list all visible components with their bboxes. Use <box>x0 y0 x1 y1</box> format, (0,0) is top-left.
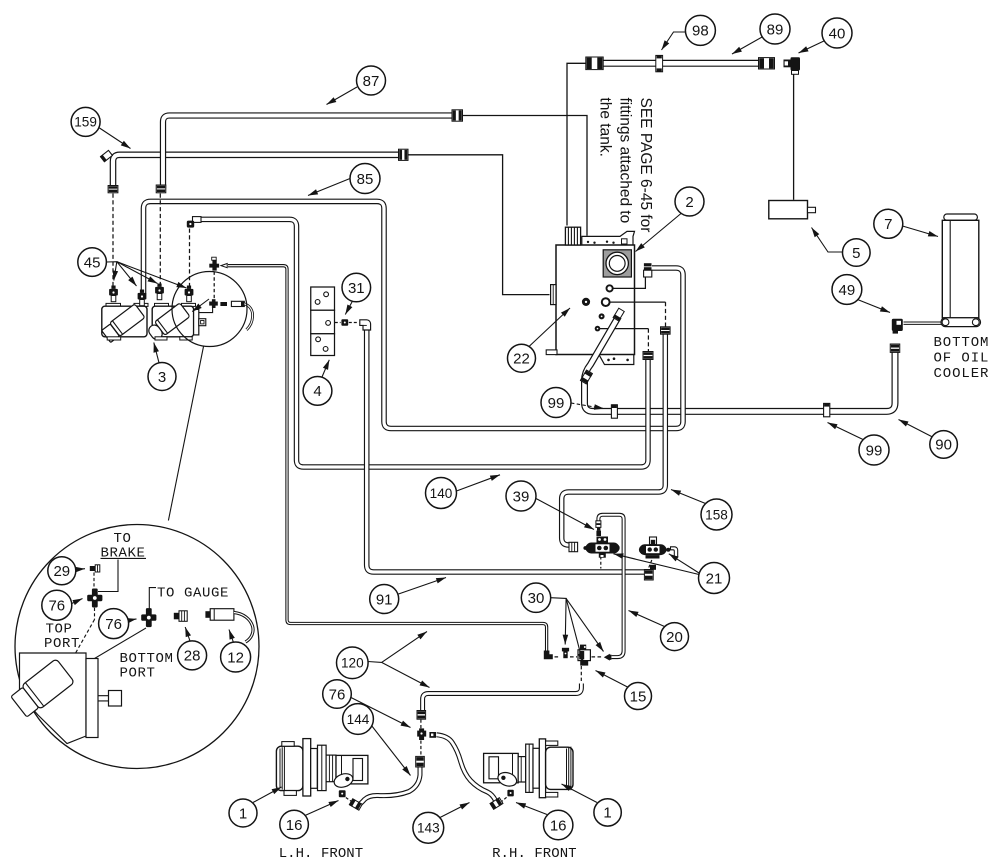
tee fitting 76/29 main view <box>209 257 219 270</box>
svg-text:20: 20 <box>666 629 683 646</box>
svg-text:85: 85 <box>357 171 374 188</box>
svg-text:76: 76 <box>105 616 122 633</box>
svg-text:99: 99 <box>866 442 883 459</box>
svg-text:4: 4 <box>313 383 321 400</box>
svg-text:16: 16 <box>550 817 567 834</box>
svg-text:PORT: PORT <box>44 636 80 652</box>
hose 143 right end fitting <box>490 797 504 809</box>
dash valve 15 to hose 120 <box>580 666 582 683</box>
dash hose 87 to fitting 45-3 <box>159 194 161 286</box>
svg-text:1: 1 <box>239 805 247 822</box>
leader 39 <box>536 499 594 530</box>
svg-text:140: 140 <box>430 486 453 501</box>
hose 89 <box>603 60 759 67</box>
suction hose tank-end coupler <box>613 308 625 321</box>
TO GAUGE label <box>157 586 229 602</box>
fitting 28 <box>174 611 187 622</box>
leader 3 <box>154 343 159 363</box>
svg-text:40: 40 <box>829 25 846 42</box>
coupler hose 120 end <box>417 711 426 720</box>
tank breather <box>565 227 580 245</box>
valve 15 <box>578 645 590 666</box>
callout 1 RH <box>594 799 621 826</box>
leader 158 <box>671 490 706 504</box>
hose 20 end fitting <box>604 654 612 661</box>
svg-text:15: 15 <box>630 688 647 705</box>
line hose 87 to tank bracket <box>463 116 588 236</box>
leader 90 <box>899 420 933 438</box>
svg-text:BOTTOM: BOTTOM <box>934 335 990 351</box>
coupler hose 140 top <box>643 352 653 360</box>
fitting 45 #4 <box>185 286 194 302</box>
leader 49 <box>858 300 891 313</box>
callout 76 bottom <box>99 609 129 639</box>
tank port P3 <box>599 313 605 319</box>
callout 76 tee <box>323 680 352 709</box>
suction hose tank to oil cooler (99/90) <box>585 317 896 412</box>
dash port P4 to hose 140 <box>647 329 649 351</box>
hose 87 <box>163 116 452 189</box>
leader 89 <box>732 37 763 55</box>
svg-text:12: 12 <box>227 649 244 666</box>
fitting above hose 91 end <box>650 565 656 570</box>
leader 4 <box>322 360 329 377</box>
hose 158 <box>562 335 666 546</box>
callout 85 <box>350 164 380 194</box>
svg-text:fittings attached to: fittings attached to <box>617 98 634 224</box>
callout 5 <box>843 239 871 267</box>
callout 1 LH <box>229 799 257 827</box>
tank port 22 <box>582 298 590 306</box>
svg-text:TO GAUGE: TO GAUGE <box>157 586 229 602</box>
svg-text:OF OIL: OF OIL <box>934 351 990 367</box>
callout 159 <box>71 107 100 136</box>
callout 7 <box>874 209 903 238</box>
svg-text:159: 159 <box>74 115 97 130</box>
open arrow at tee <box>221 264 227 268</box>
callout 39 <box>506 481 536 511</box>
brake line end elbow <box>544 651 553 660</box>
brake chamber 1 RH <box>484 739 573 798</box>
leader 29 <box>76 568 85 571</box>
leader 120 a <box>368 632 427 663</box>
callout 20 <box>661 623 689 651</box>
bracket TO BRAKE <box>98 560 118 592</box>
callout 99 right <box>859 435 889 465</box>
callout 158 <box>701 499 732 530</box>
callout 89 <box>760 14 790 44</box>
dash tee 144 to hose 143 <box>420 741 422 756</box>
coupler hose 143 top <box>416 756 425 767</box>
hose 143 left end fitting <box>349 798 363 810</box>
svg-text:30: 30 <box>528 590 545 607</box>
dash tee 76 to lower tee <box>213 272 215 299</box>
R.H. FRONT label <box>492 846 577 862</box>
hose 159 <box>113 155 399 189</box>
leader 12 <box>229 630 234 643</box>
coupler on hose 90 <box>890 344 900 352</box>
callout 91 <box>370 585 399 614</box>
leader 76 tee <box>351 698 411 728</box>
L-line valve to lower tee <box>199 307 213 313</box>
leader 40 <box>799 40 827 53</box>
leader 1 RH <box>562 784 598 803</box>
magnified detail circle <box>15 525 259 769</box>
svg-text:16: 16 <box>286 817 303 834</box>
svg-text:22: 22 <box>513 351 530 368</box>
port P4 line <box>600 328 648 330</box>
svg-text:89: 89 <box>767 21 784 38</box>
fitting 16 RH <box>507 790 513 797</box>
svg-text:28: 28 <box>184 648 201 665</box>
dash fitting 16 LH <box>346 798 352 802</box>
valve 3 left plunger <box>101 304 145 343</box>
callout 49 <box>832 275 862 305</box>
valve 3 right plunger <box>146 303 190 342</box>
hose 158 elbow into manifold <box>569 542 578 551</box>
callout 21 <box>699 563 730 594</box>
manifold 21 right <box>639 537 670 559</box>
svg-text:144: 144 <box>347 712 370 727</box>
leader 144 <box>372 726 411 776</box>
leader 1 LH <box>253 787 282 803</box>
svg-text:29: 29 <box>53 563 70 580</box>
BOTTOM OF OIL COOLER label <box>934 335 990 382</box>
elbow at tank to hose 85 <box>644 263 652 277</box>
fitting 45 #1 <box>109 286 118 302</box>
fitting 16 LH <box>339 790 346 797</box>
magnified valve body <box>10 653 122 744</box>
dash hose 120 to tee 144 <box>420 720 422 729</box>
leader 45 a <box>107 262 117 281</box>
leader 45 d <box>117 262 187 288</box>
L.H. FRONT label <box>279 846 364 862</box>
valve 3 side plate <box>194 309 206 335</box>
tank left tab <box>551 285 556 305</box>
leader 99 left <box>571 403 604 409</box>
callout 15 <box>625 683 652 710</box>
leader 45 c <box>117 262 158 284</box>
dash fitting 16 RH <box>501 797 508 803</box>
tank top bracket <box>582 231 635 245</box>
dash hose 91 to manifold 21R <box>649 560 652 568</box>
port P2 line <box>609 301 665 303</box>
svg-text:COOLER: COOLER <box>934 366 990 382</box>
leader 91 <box>399 578 447 595</box>
connector line to magnified circle <box>168 347 203 521</box>
coupler on suction hose <box>580 370 593 384</box>
svg-text:76: 76 <box>329 686 346 703</box>
part 12 <box>205 609 234 621</box>
part 12 hose curve main view <box>244 304 252 330</box>
leader 140 <box>457 475 501 491</box>
leader 159 <box>100 128 131 149</box>
svg-text:76: 76 <box>48 598 65 615</box>
svg-text:1: 1 <box>603 805 611 822</box>
callout 144 <box>343 704 374 735</box>
coupler hose 89 right <box>759 58 775 69</box>
leader 15 <box>596 671 628 688</box>
callout 140 <box>426 478 457 509</box>
brake chamber 1 LH <box>276 739 368 796</box>
hose 143 left <box>359 757 421 805</box>
hose 143 right <box>437 735 496 801</box>
svg-text:98: 98 <box>692 23 709 40</box>
elbow at fitting 31 <box>360 320 371 330</box>
svg-text:BRAKE: BRAKE <box>101 546 146 562</box>
brake line from tee 76 (120) <box>228 266 547 651</box>
hose 159 left end fitting <box>100 150 113 162</box>
callout 76 top <box>42 590 72 620</box>
leader 22 <box>529 308 570 347</box>
svg-text:39: 39 <box>513 488 530 505</box>
hose 120 <box>423 684 582 711</box>
fitting at tee 144 right <box>429 732 436 738</box>
callout 16 LH <box>280 810 309 839</box>
leader 7 <box>903 226 939 237</box>
elbow hose 140 top left <box>187 217 201 228</box>
callout 40 <box>822 18 852 48</box>
chamber LH port boss <box>332 771 354 789</box>
callout 4 <box>303 377 332 406</box>
callout 98 <box>685 15 715 45</box>
hose 140 <box>199 219 648 467</box>
tank port P2 <box>602 298 610 306</box>
coupler hose 91 end <box>644 570 653 581</box>
leader 143 <box>440 803 470 818</box>
part 5 sender <box>769 201 816 219</box>
svg-text:90: 90 <box>935 437 952 454</box>
coupler 99 right <box>824 403 830 417</box>
valve 3 mounting tabs <box>106 303 196 306</box>
svg-text:2: 2 <box>685 194 693 211</box>
fitting 45 #2 <box>138 290 147 306</box>
chamber RH port boss <box>496 770 518 788</box>
leader 28 <box>185 627 190 641</box>
callout 120 <box>337 647 369 679</box>
svg-text:49: 49 <box>839 282 856 299</box>
svg-text:45: 45 <box>84 254 101 271</box>
svg-text:L.H. FRONT: L.H. FRONT <box>279 846 364 862</box>
dash 29 to cross <box>93 573 95 590</box>
leader 30 b <box>566 598 583 663</box>
dash hose 159 to fitting 45-1 <box>112 194 114 287</box>
svg-text:SEE PAGE 6-45 for: SEE PAGE 6-45 for <box>637 98 654 233</box>
tank bottom bracket <box>599 355 634 365</box>
tank port P4 <box>595 326 601 332</box>
svg-text:91: 91 <box>376 591 393 608</box>
elbow fitting 49 <box>892 319 903 334</box>
leader 99 right <box>828 423 864 440</box>
manifold 21 left <box>583 537 619 558</box>
valve 3 left block <box>102 306 147 337</box>
TOP PORT label <box>44 622 80 653</box>
lower tee fitting main view <box>209 299 218 308</box>
line hose 159 to tank tab <box>408 155 550 295</box>
leader 16 LH <box>305 801 339 816</box>
svg-text:the tank.: the tank. <box>597 98 614 157</box>
tee 144 <box>417 728 426 740</box>
dash manifold 21L to hose 91 <box>600 557 602 569</box>
svg-text:99: 99 <box>548 395 565 412</box>
tank port P1 <box>607 285 613 291</box>
leader 76 bottom <box>129 619 137 621</box>
callout 45 <box>78 248 107 277</box>
hose 20 <box>598 515 623 657</box>
coupler hose 87 left <box>156 185 166 193</box>
callout 87 <box>357 66 386 95</box>
leader 76 top <box>72 599 83 604</box>
fitting 29 <box>90 565 100 572</box>
leader 5 <box>812 228 843 253</box>
callout 22 <box>508 344 536 372</box>
callout 143 <box>413 812 444 843</box>
valve 3 feet <box>107 337 192 340</box>
svg-text:120: 120 <box>341 656 364 671</box>
tank filler cap <box>603 250 631 277</box>
leader 30 a <box>551 598 567 645</box>
callout 3 <box>148 363 176 391</box>
tank bottom foot <box>546 350 557 355</box>
svg-text:31: 31 <box>348 280 365 297</box>
detail circle on valve <box>172 272 247 347</box>
leader 45 b <box>117 262 137 286</box>
elbow at manifold 21R right port <box>671 547 678 557</box>
line fitting 40 to part 5 <box>793 74 795 200</box>
leader 21 b <box>614 554 700 575</box>
callout 29 <box>48 557 76 585</box>
leader 120 b <box>382 662 430 687</box>
port P1 line to elbow <box>613 278 646 289</box>
cross fitting 76 top <box>87 589 102 608</box>
part 12 main view <box>231 301 244 306</box>
coupler hose 158 top <box>661 327 671 334</box>
leader 16 RH <box>516 803 547 815</box>
svg-text:5: 5 <box>852 245 860 262</box>
oil cooler inlet line <box>904 322 944 325</box>
svg-text:158: 158 <box>705 507 728 522</box>
coupler 99 left <box>611 404 617 418</box>
callout 30 <box>521 583 550 612</box>
oil cooler part 7 <box>941 214 981 327</box>
cross fitting 76 bottom <box>141 608 156 627</box>
svg-text:143: 143 <box>417 821 440 836</box>
leader 87 <box>327 87 358 105</box>
dash elbow 140 to fitting 45-4 <box>189 229 191 288</box>
svg-text:3: 3 <box>158 369 166 386</box>
coupler above fitting 39 <box>596 521 601 528</box>
fitting 40 elbow <box>784 57 801 74</box>
plate part 4 <box>311 287 335 356</box>
dash to top port <box>66 620 95 671</box>
clamp 98 <box>656 55 663 72</box>
fitting 45 #3 <box>155 284 164 300</box>
dash port P2 to hose 158 <box>665 302 667 326</box>
callout 28 <box>178 641 207 670</box>
line to bottom port <box>68 628 147 675</box>
bracket TO GAUGE <box>149 588 156 609</box>
svg-text:R.H. FRONT: R.H. FRONT <box>492 846 577 862</box>
SEE PAGE note <box>597 98 654 233</box>
hose 85 <box>144 201 684 428</box>
leader 30 c <box>566 598 603 651</box>
svg-text:PORT: PORT <box>120 666 156 682</box>
coupler hose 87 right <box>452 110 463 121</box>
tank part 2 body <box>556 245 635 355</box>
TO BRAKE label <box>101 531 147 562</box>
port leader into valve <box>192 299 209 312</box>
fitting 31 <box>341 319 348 325</box>
hose 91 <box>367 330 649 573</box>
svg-text:7: 7 <box>884 216 892 233</box>
fitting 39 <box>596 528 601 536</box>
svg-text:21: 21 <box>706 570 723 587</box>
leader 31 <box>345 301 352 315</box>
callout 12 <box>221 642 251 672</box>
callout 90 <box>930 431 958 459</box>
BOTTOM PORT label <box>120 651 174 682</box>
dash line fittings 30 <box>549 656 603 658</box>
valve 3 right block <box>152 306 193 337</box>
leader 20 <box>629 611 665 627</box>
callout 31 <box>342 273 371 302</box>
dash below cross 76 <box>94 608 96 620</box>
part 12 hose <box>234 613 253 643</box>
callout 2 <box>675 187 704 216</box>
coupler hose 159 right <box>399 149 409 160</box>
fitting 30 bolt <box>562 648 569 658</box>
coupler hose 159 left <box>108 186 118 193</box>
dash fitting 31 <box>335 322 358 324</box>
line hose 89 to breather <box>567 63 586 225</box>
callout 99 left <box>541 388 571 418</box>
leader 98 <box>662 32 687 50</box>
leader 2 <box>636 214 682 252</box>
fitting 28 main view <box>220 302 227 306</box>
svg-text:87: 87 <box>363 73 380 90</box>
coupler hose 89 left <box>586 57 603 70</box>
leader 21 a <box>669 554 699 573</box>
leader 85 <box>308 179 350 196</box>
callout 16 RH <box>544 810 573 839</box>
